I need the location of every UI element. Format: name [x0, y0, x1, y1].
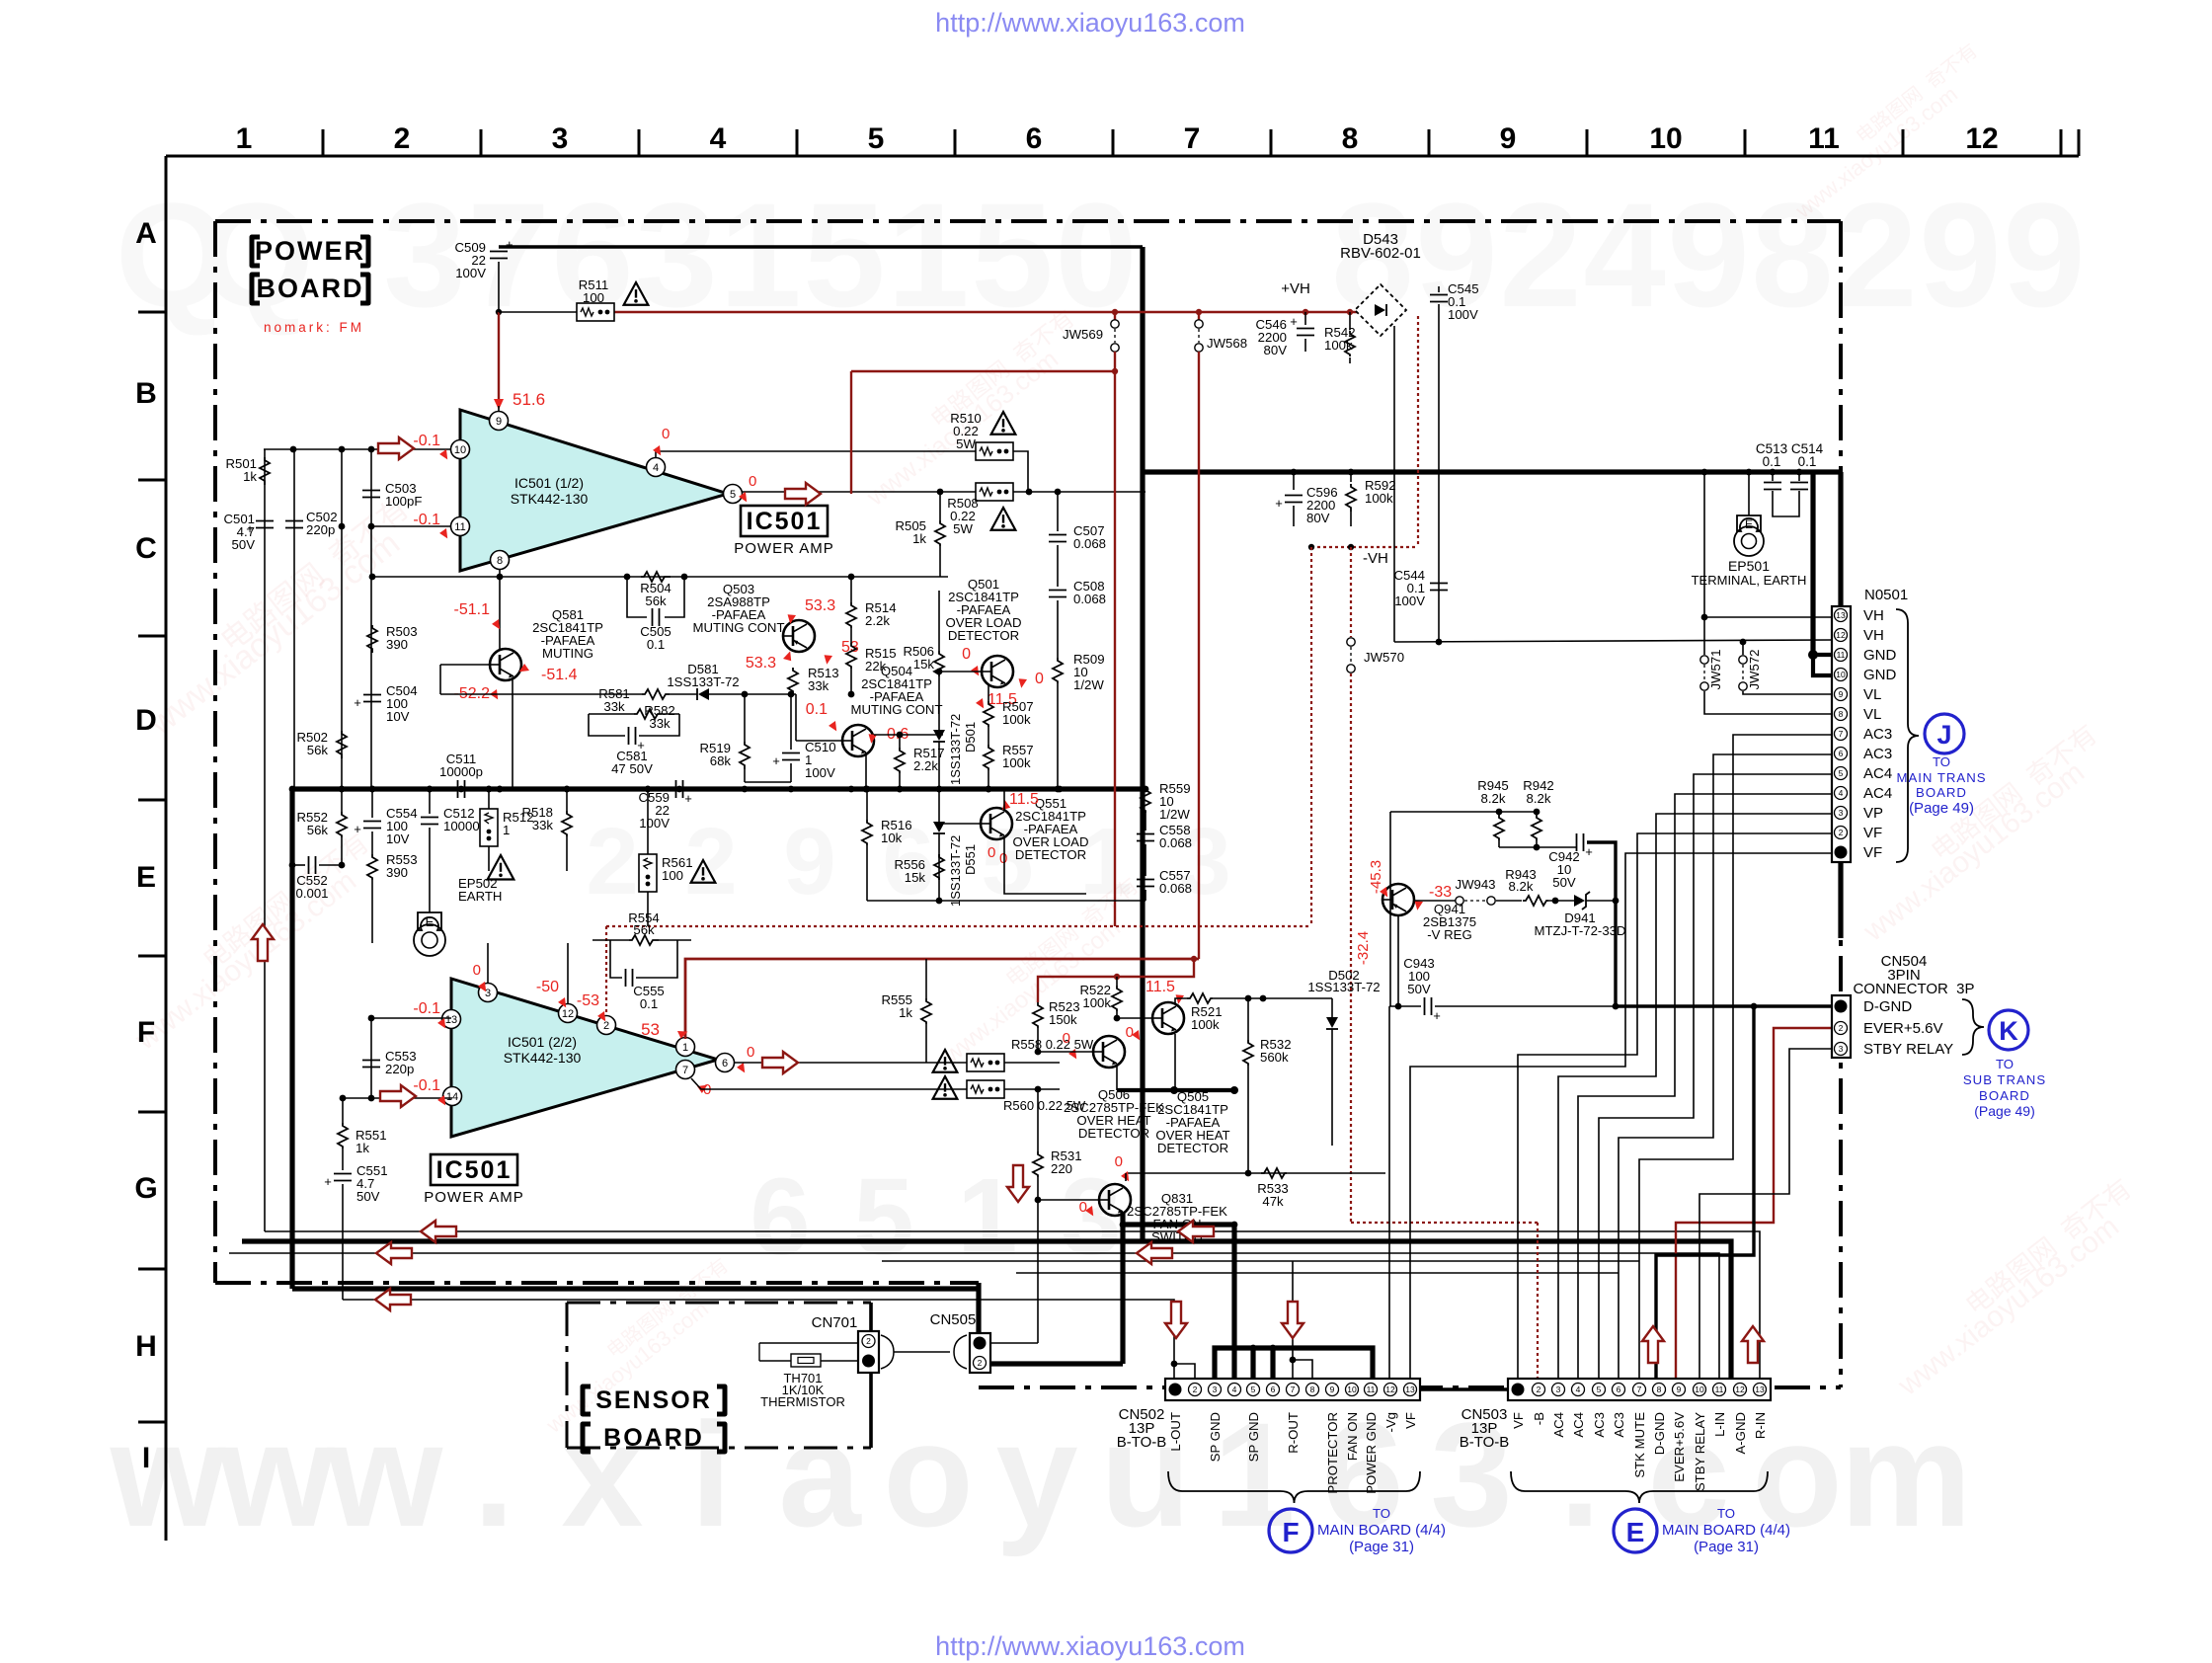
svg-text:10V: 10V	[386, 831, 410, 846]
svg-text:0.1: 0.1	[806, 701, 828, 718]
capacitor C581	[589, 714, 625, 736]
svg-text:50V: 50V	[1407, 982, 1431, 996]
wire col x347	[341, 449, 343, 526]
svg-text:220p: 220p	[306, 522, 335, 537]
resistor R505	[935, 520, 945, 546]
svg-text:6: 6	[1271, 1385, 1276, 1394]
wire bottom bus y1247	[265, 1231, 1760, 1379]
svg-text:33k: 33k	[808, 678, 829, 693]
dotted red col x1328	[1310, 547, 1312, 926]
svg-text:-VH: -VH	[1363, 550, 1388, 567]
left ruler line	[165, 156, 168, 1541]
svg-text:-V REG: -V REG	[1427, 927, 1471, 942]
svg-text:DETECTOR: DETECTOR	[948, 628, 1019, 643]
svg-text:+VH: +VH	[1281, 280, 1310, 297]
svg-text:10: 10	[454, 444, 466, 456]
svg-text:9: 9	[1330, 1385, 1335, 1394]
dotted red drop to CN503 pin2	[1537, 1223, 1539, 1379]
svg-text:10V: 10V	[386, 709, 410, 724]
CN502 brace	[1168, 1471, 1420, 1503]
resistor R502	[337, 731, 347, 758]
svg-text:11: 11	[1808, 122, 1840, 155]
svg-text:8: 8	[1310, 1385, 1315, 1394]
svg-text:R-IN: R-IN	[1753, 1412, 1768, 1439]
svg-text:100k: 100k	[1324, 338, 1353, 353]
resistor R514	[846, 602, 856, 628]
wire y584 feedback	[372, 576, 948, 578]
wire fan col thick	[1120, 1225, 1125, 1364]
resistor R555	[921, 998, 931, 1024]
svg-text:TO: TO	[1373, 1506, 1390, 1521]
svg-text:5: 5	[1251, 1385, 1256, 1394]
wire bottom bus y1289	[1016, 1272, 1619, 1274]
svg-text:MAIN TRANS: MAIN TRANS	[1896, 770, 1986, 785]
power board title	[252, 237, 260, 266]
resistor R557	[984, 745, 993, 770]
thermistor TH701	[759, 1342, 858, 1344]
resistor R582	[642, 689, 670, 699]
thick emitter bar	[1117, 1088, 1234, 1092]
transistor Q503	[783, 620, 815, 652]
svg-text:12: 12	[1836, 630, 1846, 640]
wire VH rail y478	[1143, 469, 1841, 474]
svg-text:VF: VF	[1511, 1412, 1526, 1429]
wire stair VP	[1558, 814, 1832, 1379]
svg-text:1SS133T-72: 1SS133T-72	[1307, 980, 1380, 994]
boxed resistor R508	[976, 483, 1013, 501]
wire R945 join	[1498, 840, 1500, 847]
red col x1214	[1198, 352, 1200, 959]
svg-text:4: 4	[1839, 788, 1844, 798]
svg-text:IC501: IC501	[436, 1156, 513, 1184]
svg-text:EP501: EP501	[1728, 558, 1770, 574]
svg-text:50V: 50V	[356, 1189, 380, 1204]
jumper JW572 col	[1742, 642, 1744, 655]
wire pin4 tap	[656, 451, 976, 458]
svg-text:AC4: AC4	[1863, 765, 1892, 782]
svg-text:390: 390	[386, 865, 408, 880]
red rail y376	[851, 370, 1115, 372]
red rail y316	[496, 309, 502, 315]
svg-text:2: 2	[1839, 828, 1844, 837]
resistor R552	[337, 812, 347, 837]
svg-text:JW572: JW572	[1747, 649, 1762, 689]
wire Q506 emitter	[1116, 1066, 1118, 1090]
svg-text:2: 2	[586, 809, 638, 914]
svg-text:2: 2	[1499, 172, 1581, 338]
svg-text:4: 4	[653, 462, 659, 474]
transistor Q505	[1152, 1002, 1184, 1034]
svg-text:100k: 100k	[1082, 995, 1111, 1010]
svg-text:SENSOR: SENSOR	[595, 1386, 712, 1414]
svg-text:(Page 49): (Page 49)	[1974, 1103, 2034, 1119]
svg-text:9: 9	[496, 416, 502, 428]
svg-text:IC501 (2/2): IC501 (2/2)	[508, 1034, 577, 1050]
svg-text:7: 7	[1184, 122, 1201, 155]
svg-text:B: B	[135, 377, 157, 410]
wire D-GND branch down	[1656, 1006, 1754, 1379]
svg-text:9: 9	[1677, 1385, 1682, 1394]
bridge rectifier D543	[1355, 284, 1406, 336]
svg-text:47 50V: 47 50V	[611, 761, 653, 776]
wire stair AC3 b	[1619, 754, 1832, 1379]
red output rail y971 to pin1	[685, 959, 1199, 1039]
wire stair VF a	[1518, 833, 1832, 1379]
wire input pin10 y454	[264, 448, 451, 450]
sensor board title	[583, 1386, 591, 1414]
capacitor C510	[782, 752, 800, 754]
svg-text:TERMINAL, EARTH: TERMINAL, EARTH	[1692, 573, 1807, 588]
svg-text:-0.1: -0.1	[413, 1000, 440, 1017]
capacitor C551	[334, 1173, 352, 1175]
svg-text:POWER: POWER	[255, 236, 365, 266]
sensor board border	[567, 1303, 871, 1448]
svg-text:11: 11	[1837, 650, 1846, 660]
svg-text:DETECTOR: DETECTOR	[1015, 847, 1086, 862]
transistor Q831	[1099, 1184, 1131, 1216]
wire Q941 collector	[1397, 915, 1399, 1006]
resistor R507	[984, 701, 993, 727]
svg-text:-0.1: -0.1	[413, 433, 440, 449]
svg-text:6: 6	[750, 1156, 810, 1278]
svg-text:L-IN: L-IN	[1712, 1412, 1727, 1437]
svg-text:100V: 100V	[1394, 594, 1425, 608]
arrow down L-OUT	[1165, 1302, 1187, 1338]
svg-text:STK MUTE: STK MUTE	[1632, 1412, 1647, 1478]
svg-text:80V: 80V	[1306, 511, 1330, 525]
svg-text:0.1: 0.1	[1798, 454, 1817, 469]
transistor Q504	[842, 725, 874, 756]
wire STBY relay path	[1699, 1049, 1831, 1379]
svg-text:1: 1	[682, 1042, 688, 1054]
wire GND thick junction	[1808, 650, 1818, 660]
svg-text:-32.4: -32.4	[1355, 931, 1372, 965]
svg-text:1SS133T-72: 1SS133T-72	[948, 835, 963, 907]
wire stair VF b	[1410, 853, 1832, 1379]
svg-text:MUTING CONT: MUTING CONT	[850, 702, 942, 717]
svg-text:5W: 5W	[953, 521, 973, 536]
svg-text:560k: 560k	[1260, 1050, 1289, 1065]
svg-text:IC501 (1/2): IC501 (1/2)	[514, 475, 584, 491]
wire CN505 pin2 rail thick	[990, 1361, 1123, 1366]
svg-text:+: +	[324, 1174, 332, 1189]
diode D581	[670, 693, 697, 695]
svg-text:4: 4	[1583, 172, 1665, 338]
svg-text:12: 12	[562, 1008, 574, 1020]
svg-text:13: 13	[1405, 1385, 1415, 1394]
svg-text:.: .	[473, 1391, 514, 1557]
svg-text:AC4: AC4	[1863, 785, 1892, 802]
svg-text:A: A	[135, 217, 157, 250]
svg-text:MUTING: MUTING	[542, 646, 593, 661]
svg-text:VL: VL	[1863, 686, 1881, 703]
svg-text:8.2k: 8.2k	[1481, 791, 1506, 806]
svg-text:1/2W: 1/2W	[1073, 677, 1104, 692]
wire R945 rail	[1390, 811, 1537, 813]
svg-text:100V: 100V	[455, 266, 486, 280]
warning R510	[991, 412, 1016, 435]
wire between CN502 CN503	[1420, 1387, 1508, 1390]
svg-text:EVER+5.6V: EVER+5.6V	[1672, 1412, 1687, 1482]
wire thick vertical col x1157	[1140, 247, 1145, 1241]
svg-text:2: 2	[1537, 1385, 1541, 1394]
resistor R523	[1033, 1002, 1043, 1028]
svg-text:JW569: JW569	[1063, 327, 1103, 342]
svg-text:15k: 15k	[913, 657, 935, 672]
svg-text:DETECTOR: DETECTOR	[1078, 1126, 1149, 1141]
resistor R551	[338, 1123, 348, 1148]
wire y912 lower join	[867, 900, 1145, 902]
svg-text:DETECTOR: DETECTOR	[1157, 1141, 1228, 1155]
misc junction dots y1365	[1231, 1222, 1238, 1228]
node E marker	[1614, 1509, 1657, 1552]
wire D-GND rail	[1389, 1005, 1421, 1007]
warning mark R511	[624, 282, 649, 305]
svg-text:E: E	[1626, 1517, 1645, 1547]
svg-text:100k: 100k	[1002, 712, 1031, 727]
svg-text:56k: 56k	[645, 594, 667, 608]
svg-text:50V: 50V	[1552, 875, 1576, 890]
wire col x376 t2	[370, 1018, 372, 1096]
wire bottom bus y1277	[882, 1260, 1639, 1262]
capacitor C511	[457, 780, 459, 798]
svg-text:100: 100	[583, 290, 604, 305]
power board border	[215, 219, 1841, 223]
warning R561	[691, 860, 716, 883]
red feed rail y989	[1038, 959, 1194, 1002]
wire Q581 bottom join	[745, 781, 791, 783]
wire Q831 collector	[1125, 1173, 1127, 1181]
dotted red rail y938	[606, 925, 1311, 927]
arrow left bus5	[375, 1289, 411, 1310]
svg-text:D: D	[135, 704, 157, 737]
diode D502	[1326, 1017, 1338, 1028]
wire Q581 base rail	[440, 664, 490, 666]
svg-text:AC3: AC3	[1863, 726, 1892, 743]
svg-text:w: w	[218, 1391, 335, 1557]
capacitor C557	[1145, 844, 1146, 876]
capacitor C552	[308, 856, 310, 874]
capacitor C513	[1772, 472, 1774, 481]
wire Q504 base	[796, 740, 842, 742]
wire Q831 emitter thick	[1123, 1212, 1234, 1225]
svg-text:K: K	[1999, 1016, 2018, 1046]
wire top rail from C509	[499, 245, 1143, 248]
wire VH pin13 rail	[1704, 616, 1832, 618]
connector CN503	[1508, 1379, 1771, 1400]
svg-text:F: F	[1282, 1517, 1299, 1547]
pin 3	[479, 984, 498, 1002]
svg-text:0: 0	[1035, 671, 1044, 687]
svg-text:11: 11	[1715, 1385, 1724, 1394]
svg-text:(Page 31): (Page 31)	[1349, 1539, 1414, 1555]
svg-text:10000p: 10000p	[439, 764, 483, 779]
svg-text:EARTH: EARTH	[458, 889, 502, 904]
svg-text:8: 8	[1657, 1385, 1662, 1394]
wire C513 C514 join	[1773, 491, 1799, 516]
svg-text:BOARD: BOARD	[257, 274, 364, 303]
wire L-OUT y1316	[343, 1300, 1174, 1379]
svg-text:5: 5	[1597, 1385, 1602, 1394]
svg-text:0.1: 0.1	[640, 996, 658, 1011]
svg-text:w: w	[327, 1391, 443, 1557]
capacitor C596	[1293, 472, 1295, 490]
svg-text:100k: 100k	[1002, 755, 1031, 770]
svg-text:100k: 100k	[1365, 491, 1393, 506]
svg-text:+: +	[1585, 844, 1593, 859]
dotted red rail y554	[1311, 546, 1418, 548]
svg-text:2.2k: 2.2k	[913, 758, 938, 773]
wire pin8 drop	[499, 570, 501, 649]
svg-text:9: 9	[1500, 122, 1517, 155]
op-amp IC501 (1/2) U1	[460, 410, 728, 571]
svg-text:68k: 68k	[710, 753, 732, 768]
wire stair AC3 a	[1639, 735, 1832, 1379]
capacitor C555	[610, 940, 622, 978]
wire input pin14 y1110	[343, 1097, 452, 1099]
arrow down R-OUT	[1282, 1302, 1303, 1338]
pin 9	[490, 412, 509, 431]
svg-text:N0501: N0501	[1864, 587, 1908, 603]
wire D-GND thick	[1616, 1004, 1831, 1007]
svg-text:AC4: AC4	[1551, 1412, 1566, 1438]
CN503 brace	[1511, 1471, 1768, 1503]
svg-text:53: 53	[841, 639, 859, 656]
svg-text:I: I	[142, 1442, 150, 1474]
svg-text:MAIN BOARD (4/4): MAIN BOARD (4/4)	[1317, 1522, 1446, 1539]
arrow left bus1	[1178, 1221, 1214, 1242]
svg-text:VF: VF	[1403, 1412, 1418, 1429]
svg-text:TO: TO	[1996, 1057, 2014, 1071]
svg-text:D-GND: D-GND	[1863, 998, 1912, 1015]
svg-text:2: 2	[603, 1020, 609, 1032]
resistor R509	[1057, 600, 1059, 658]
arrow output1	[785, 483, 821, 505]
svg-text:53.3: 53.3	[805, 597, 835, 614]
svg-text:6: 6	[1839, 749, 1844, 758]
svg-text:0: 0	[999, 850, 1007, 867]
svg-text:33k: 33k	[649, 716, 671, 731]
warning R512	[488, 855, 514, 880]
warning R558	[933, 1050, 958, 1072]
svg-text:+: +	[1433, 1008, 1441, 1023]
svg-text:STBY RELAY: STBY RELAY	[1863, 1041, 1953, 1058]
svg-text:3: 3	[552, 122, 569, 155]
svg-text:10: 10	[1695, 1385, 1704, 1394]
resistor R513	[788, 668, 798, 693]
svg-text:4: 4	[1576, 1385, 1581, 1394]
svg-text:A-GND: A-GND	[1733, 1412, 1748, 1455]
svg-text:BOARD: BOARD	[1979, 1088, 2030, 1103]
pin 5	[724, 485, 743, 504]
svg-text:0: 0	[749, 473, 756, 490]
svg-text:6: 6	[1026, 122, 1043, 155]
svg-text:BOARD: BOARD	[603, 1424, 704, 1452]
svg-text:TO: TO	[1933, 754, 1950, 769]
svg-text:53.3: 53.3	[746, 655, 776, 672]
svg-text:1SS133T-72: 1SS133T-72	[667, 674, 739, 689]
resistor R503	[367, 625, 377, 653]
svg-text:D-GND: D-GND	[1652, 1412, 1667, 1455]
svg-text:IC501: IC501	[747, 508, 823, 535]
cable CN701-CN505	[881, 1335, 967, 1369]
wire VH pin12 rail y650	[1394, 640, 1832, 642]
svg-text:11.5: 11.5	[1009, 791, 1039, 808]
transistor Q506	[1093, 1036, 1125, 1068]
wire stair AC4 b	[1578, 794, 1832, 1379]
svg-text:MTZJ-T-72-33D: MTZJ-T-72-33D	[1534, 923, 1625, 938]
svg-text:+: +	[354, 822, 361, 836]
svg-text:1k: 1k	[899, 1005, 912, 1020]
resistor R501	[260, 457, 270, 485]
svg-text:11: 11	[1367, 1385, 1376, 1394]
svg-text:3: 3	[1839, 1044, 1844, 1054]
jumper JW943	[1414, 900, 1456, 902]
resistor R516	[862, 820, 872, 845]
svg-text:R-OUT: R-OUT	[1286, 1412, 1301, 1454]
svg-text:7: 7	[1291, 1385, 1296, 1394]
svg-text:-53: -53	[577, 992, 599, 1009]
svg-text:0: 0	[1115, 1153, 1123, 1170]
svg-text:100V: 100V	[805, 765, 835, 780]
svg-text:EVER+5.6V: EVER+5.6V	[1863, 1020, 1942, 1037]
svg-text:100V: 100V	[1448, 307, 1478, 322]
svg-text:56k: 56k	[307, 743, 329, 757]
wire x346 col	[341, 526, 343, 789]
svg-text:0.068: 0.068	[1159, 881, 1192, 896]
svg-text:www.xiaoyu163.com: www.xiaoyu163.com	[1891, 1210, 2125, 1402]
svg-text:9: 9	[1667, 172, 1749, 338]
svg-text:53: 53	[641, 1020, 660, 1039]
svg-text:VF: VF	[1863, 844, 1882, 861]
svg-text:220: 220	[1051, 1161, 1072, 1176]
wire N0501 bottom stub	[1838, 862, 1843, 938]
svg-text:0: 0	[1063, 1030, 1070, 1047]
capacitor C504	[363, 694, 381, 696]
svg-text:2: 2	[866, 1336, 871, 1346]
red col x862	[850, 371, 852, 494]
svg-text:10: 10	[1836, 670, 1846, 679]
svg-text:6: 6	[722, 1058, 728, 1069]
arrow input1	[378, 437, 414, 459]
svg-text:5: 5	[853, 1156, 913, 1278]
svg-text:JW943: JW943	[1455, 877, 1495, 892]
svg-text:9: 9	[2003, 172, 2085, 338]
wire speaker bus y1303	[292, 1286, 979, 1291]
pin 11	[451, 517, 470, 536]
svg-text:150k: 150k	[1049, 1012, 1077, 1027]
arrow down R531	[1007, 1165, 1029, 1202]
svg-text:9: 9	[783, 809, 835, 914]
svg-text:F: F	[137, 1016, 155, 1049]
wire bottom bus thick y1257	[242, 1241, 1731, 1379]
svg-text:3: 3	[383, 172, 465, 338]
wire overheat bottom rail	[1126, 1172, 1385, 1174]
wire Q581 emitter	[512, 677, 513, 789]
wire gnd bus y799	[292, 786, 1144, 791]
capacitor C942	[1576, 833, 1578, 851]
boxed resistor R558	[967, 1054, 1004, 1071]
svg-text:56k: 56k	[633, 922, 655, 937]
resistor R504	[641, 572, 671, 582]
IC501 label box 1	[741, 506, 828, 536]
svg-text:CN701: CN701	[812, 1314, 858, 1331]
boxed resistor R560	[967, 1080, 1004, 1098]
svg-text:2: 2	[394, 122, 411, 155]
svg-text:PROTECTOR: PROTECTOR	[1325, 1412, 1340, 1494]
wire R554 stubs	[592, 939, 629, 941]
wire CN505 pin1 to R531	[990, 1342, 1038, 1344]
